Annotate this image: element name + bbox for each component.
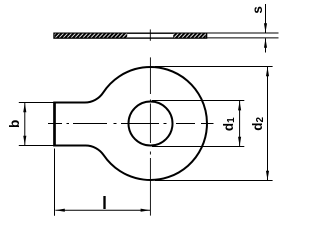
svg-text:l: l xyxy=(102,193,107,213)
s label xyxy=(250,6,265,14)
s extension line top xyxy=(207,32,279,34)
l dimension line xyxy=(55,209,150,211)
d2 extension line bottom xyxy=(155,180,273,182)
d1 dimension arrow up xyxy=(238,101,241,110)
b extension line bottom xyxy=(19,145,54,147)
section hatching right of hole xyxy=(173,34,206,38)
inner hole circle xyxy=(129,102,173,146)
b extension line top xyxy=(19,102,54,104)
b dimension arrow up xyxy=(23,103,26,112)
front view outer outline: tab with fillets and outer circle xyxy=(55,67,207,180)
tab left edge (thick) xyxy=(53,102,56,147)
b dimension arrow down xyxy=(23,136,26,145)
d1 dimension line xyxy=(239,101,241,146)
d1 dimension arrow down xyxy=(238,137,241,146)
s dimension arrow up xyxy=(264,38,267,47)
vertical centerline xyxy=(149,57,151,215)
svg-text:b: b xyxy=(7,120,22,128)
s extension line bottom xyxy=(207,37,279,39)
s dimension line upper segment xyxy=(265,4,267,33)
svg-text:d2: d2 xyxy=(250,117,266,131)
d2 label xyxy=(250,117,266,131)
side view section outline (washer edge-on) xyxy=(54,33,207,38)
l extension line left xyxy=(54,149,56,216)
b label xyxy=(7,120,22,128)
svg-text:s: s xyxy=(250,6,265,14)
d2 dimension arrow up xyxy=(266,67,269,76)
s dimension line lower segment xyxy=(265,39,267,53)
l dimension arrow left xyxy=(55,209,64,212)
d2 dimension arrow down xyxy=(266,171,269,180)
b dimension line xyxy=(24,103,26,145)
d2 dimension line xyxy=(267,67,269,180)
side view vertical centerline tick xyxy=(149,29,151,40)
horizontal centerline xyxy=(48,123,214,125)
d1 label xyxy=(221,117,237,131)
svg-text:d1: d1 xyxy=(221,117,237,131)
d2 extension line top xyxy=(155,66,273,68)
d1 extension line top xyxy=(152,100,244,102)
d1 extension line bottom xyxy=(152,146,244,148)
section hatching left of hole xyxy=(55,34,127,38)
s dimension arrow down xyxy=(264,23,267,32)
l dimension arrow right xyxy=(141,209,150,212)
